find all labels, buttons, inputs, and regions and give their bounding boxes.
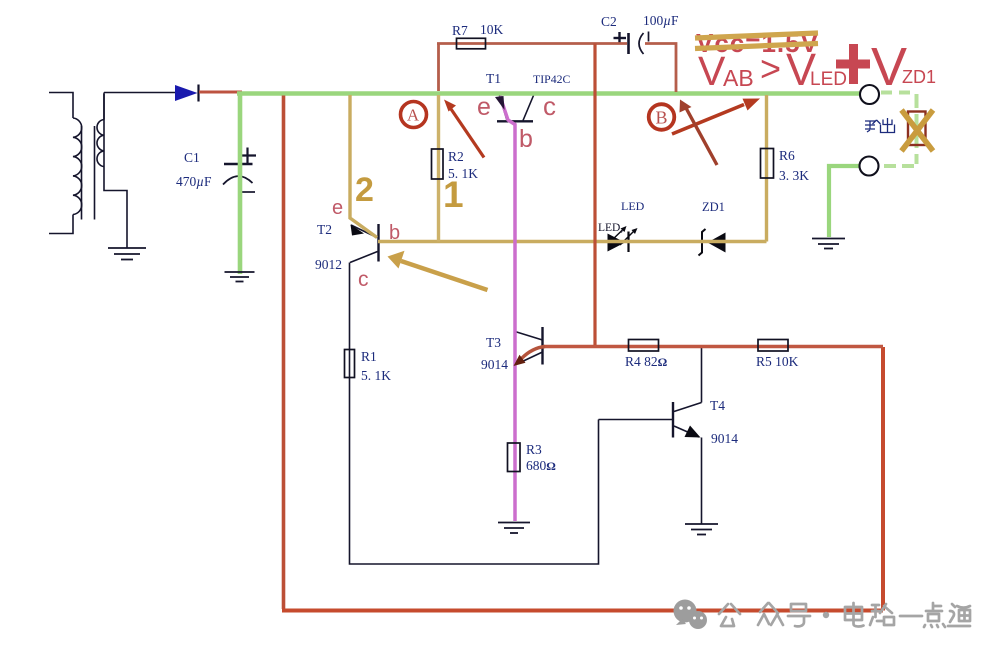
wire red right loop vertical: [881, 347, 885, 611]
svg-text:A: A: [407, 106, 420, 125]
svg-text:R4 82Ω: R4 82Ω: [625, 354, 668, 369]
ground C1: [225, 272, 255, 282]
wire red R7 loop left leg: [437, 44, 440, 92]
diode D1 rectifier: [175, 85, 199, 102]
svg-text:c: c: [358, 268, 369, 291]
wire green from output terminal 2 to ground: [829, 166, 860, 237]
svg-text:T2: T2: [317, 222, 332, 237]
transistor T1 emitter arrowhead: [495, 96, 505, 110]
svg-text:V: V: [698, 48, 726, 94]
wire red from diode to C1 node: [199, 91, 242, 94]
wire khaki R6 branch: [765, 95, 768, 242]
svg-text:R2: R2: [448, 149, 464, 164]
wire red left loop vertical: [282, 96, 286, 610]
svg-text:T1: T1: [486, 71, 501, 86]
svg-text:b: b: [389, 222, 400, 244]
watermark logo wechat: [674, 600, 708, 630]
transistor T2 lines: [350, 224, 379, 263]
svg-text:5. 1K: 5. 1K: [361, 368, 391, 383]
wire green dashed from terminal 1: [881, 91, 913, 95]
wire T2 collector to R1 to bottom run to T4 base: [350, 263, 599, 565]
svg-text:10K: 10K: [480, 22, 504, 37]
capacitor C2 symbol: [614, 32, 649, 55]
transistor T4 emitter arrowhead: [685, 426, 701, 438]
svg-text:R1: R1: [361, 349, 377, 364]
formula V_AB > V_LED + V_ZD1: [698, 37, 936, 97]
svg-text:9014: 9014: [711, 431, 738, 446]
svg-text:2: 2: [355, 171, 374, 209]
resistor R6: [761, 149, 774, 179]
resistor R5: [758, 340, 788, 352]
svg-text:T3: T3: [486, 335, 501, 350]
label shuchu output chinese: [865, 118, 895, 133]
svg-text:LED: LED: [810, 69, 847, 90]
svg-text:R3: R3: [526, 442, 542, 457]
wire magenta from T1 down through R3 to ground: [500, 96, 515, 521]
ground output: [812, 239, 845, 249]
watermark text gongzhonghao dianlu yidiantong: [719, 603, 970, 627]
svg-text:9012: 9012: [315, 257, 342, 272]
svg-text:>: >: [760, 48, 781, 89]
svg-text:3. 3K: 3. 3K: [779, 168, 809, 183]
svg-text:C2: C2: [601, 14, 617, 29]
arrow khaki to T2: [388, 251, 488, 290]
wire khaki R2 branch: [437, 95, 440, 242]
wire green C1 branch down to ground: [238, 94, 243, 275]
svg-text:TIP42C: TIP42C: [533, 72, 570, 86]
svg-text:e: e: [332, 197, 343, 219]
svg-text:680Ω: 680Ω: [526, 458, 556, 473]
wire green dashed to terminal 2: [881, 164, 914, 168]
arrowhead dark red on T3 emitter: [514, 355, 526, 366]
transformer secondary winding: [97, 93, 127, 249]
svg-text:B: B: [655, 108, 667, 128]
wire T4 emitter down to ground: [701, 438, 703, 525]
svg-text:R5 10K: R5 10K: [756, 354, 799, 369]
resistor R4: [629, 340, 659, 352]
svg-text:470µF: 470µF: [176, 174, 212, 189]
resistor R2: [432, 149, 444, 179]
resistor R7: [457, 38, 486, 49]
ground transformer secondary: [108, 248, 146, 260]
arrow red to node A: [444, 100, 484, 158]
arrow red to node B long: [672, 99, 760, 135]
arrow red crossing at B: [680, 100, 718, 166]
wire red long vertical from top to T3 base row: [593, 44, 596, 347]
transformer TR primary winding: [49, 93, 82, 234]
svg-text:b: b: [519, 125, 533, 153]
resistor R1: [345, 350, 355, 378]
strikethrough khaki lines over Vcc: [695, 33, 818, 49]
ground R3: [498, 523, 530, 534]
node A circled: [401, 102, 427, 128]
svg-text:100µF: 100µF: [643, 13, 679, 28]
wire red top run through R7: [437, 42, 627, 45]
wire green dashed vertical output: [915, 94, 919, 164]
svg-text:T4: T4: [710, 398, 725, 413]
crossed-out resistor at output: [908, 112, 926, 146]
svg-text:LED: LED: [621, 199, 645, 213]
svg-text:AB: AB: [723, 65, 754, 91]
LED diode symbol: [608, 226, 638, 252]
svg-text:R6: R6: [779, 148, 795, 163]
svg-text:e: e: [477, 93, 491, 121]
transistor T1 lines: [497, 96, 534, 122]
capacitor C1 symbol: [223, 148, 256, 193]
wire green main rail: [237, 91, 861, 96]
node B circled: [649, 104, 675, 130]
wire khaki base row through LED and ZD1: [378, 240, 767, 243]
svg-text:LED,: LED,: [598, 222, 623, 234]
ground T4: [685, 524, 718, 535]
transformer core: [82, 126, 95, 220]
X cross khaki at output: [902, 110, 934, 151]
wire red curve onto T3 emitter: [519, 347, 545, 362]
zener diode ZD1 symbol: [699, 229, 726, 256]
transistor T4 lines: [599, 402, 702, 438]
resistor R3: [508, 443, 521, 472]
wire red bottom loop: [282, 609, 883, 613]
svg-text:1: 1: [443, 174, 464, 215]
output terminal 1: [860, 85, 879, 104]
wire khaki T2 emitter branch from rail: [350, 95, 377, 238]
svg-text:ZD1: ZD1: [902, 67, 936, 87]
wire T4 collector up to R4/R5 row: [701, 347, 703, 403]
svg-text:C1: C1: [184, 150, 200, 165]
output terminal 2: [860, 157, 879, 176]
transistor T2 emitter arrowhead: [351, 225, 365, 236]
wire secondary top lead to diode: [104, 92, 175, 94]
svg-text:ZD1: ZD1: [702, 200, 725, 214]
wire red T3 base row through R4 R5: [544, 345, 883, 348]
svg-text:c: c: [543, 91, 556, 121]
svg-text:R7: R7: [452, 23, 468, 38]
wire red top run C2 to right corner: [645, 44, 676, 93]
transistor T3 lines: [515, 327, 543, 365]
svg-text:9014: 9014: [481, 357, 508, 372]
